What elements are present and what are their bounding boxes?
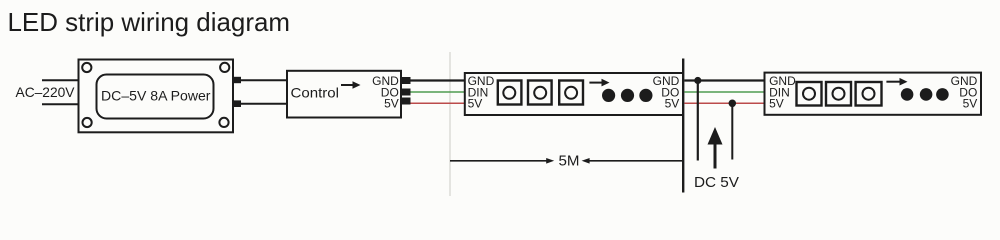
strip2 LED package 1 [797, 82, 822, 106]
wire GND drop to DC supply [697, 81, 699, 161]
dimension extension line (left, at strip start) [449, 52, 451, 196]
dimension line 5M (right half) [582, 158, 682, 164]
wire GND strip1 to strip2 (black) [684, 79, 765, 81]
strip2 continuation dot 1 [901, 88, 914, 101]
strip2 LED package 2 [826, 82, 851, 106]
svg-text:5M: 5M [559, 153, 580, 170]
wire 5V controller to strip1 (red) [411, 102, 466, 104]
wire 5V drop to DC supply [731, 103, 733, 159]
screw bottom-right [219, 118, 228, 127]
wire AC neutral (bottom) [42, 103, 79, 105]
strip1 LED package 2 [528, 81, 552, 105]
strip2 data-flow arrow [886, 78, 907, 86]
strip1 continuation dot 1 [602, 89, 615, 102]
PSU output terminal top [234, 77, 242, 83]
strip2 LED package 3 [856, 82, 882, 106]
strip1 LED package 1 [498, 81, 522, 105]
wire PSU to controller (top) [241, 79, 288, 81]
svg-text:5V: 5V [384, 97, 399, 111]
strip1 continuation dot 2 [621, 89, 634, 102]
PSU inner label plate [97, 75, 214, 119]
svg-text:AC–220V: AC–220V [16, 84, 76, 100]
strip2 continuation dot 2 [920, 88, 933, 101]
cut line between strip1 and strip2 [682, 59, 684, 193]
LED strip 1 body [465, 73, 683, 115]
strip1 continuation dot 3 [639, 89, 652, 102]
svg-text:Control: Control [291, 85, 340, 101]
DC supply arrow (up) [708, 127, 723, 169]
wire PSU to controller (bottom) [241, 103, 288, 105]
svg-text:5V: 5V [963, 97, 978, 111]
svg-text:DC 5V: DC 5V [694, 174, 739, 191]
controller terminal DO [401, 89, 411, 96]
screw top-right [220, 63, 229, 72]
controller data-flow arrow [341, 81, 361, 89]
dimension line 5M (left half) [450, 158, 554, 164]
PSU output terminal bottom [234, 100, 242, 107]
power supply PSU outer case [79, 60, 234, 133]
svg-text:LED strip wiring diagram: LED strip wiring diagram [8, 7, 291, 37]
controller terminal 5V [401, 98, 411, 105]
controller box [287, 71, 401, 118]
screw bottom-left [83, 118, 92, 127]
wire GND controller to strip1 (black) [411, 79, 466, 81]
LED strip 2 body [765, 73, 982, 115]
svg-text:5V: 5V [769, 97, 784, 111]
strip1 LED package 3 [559, 81, 583, 105]
controller terminal GND [401, 77, 411, 84]
wire DO strip1 to strip2 (green) [684, 91, 765, 93]
strip2 continuation dot 3 [936, 88, 949, 101]
svg-text:DC–5V 8A Power: DC–5V 8A Power [101, 88, 211, 104]
svg-text:5V: 5V [468, 97, 483, 111]
wire DO controller to strip1 (green) [411, 91, 466, 93]
junction 5V power injection [729, 100, 737, 108]
junction GND power injection [694, 77, 701, 84]
screw top-left [82, 63, 91, 72]
wire AC live (top) [42, 79, 79, 81]
strip1 data-flow arrow [589, 79, 609, 87]
wire 5V strip1 to strip2 (red) [684, 102, 765, 104]
svg-text:5V: 5V [665, 97, 680, 111]
